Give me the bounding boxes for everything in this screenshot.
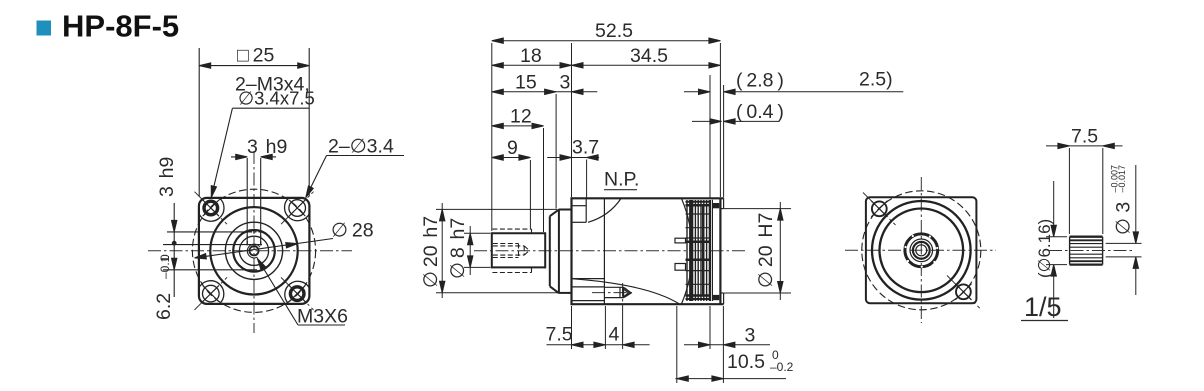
svg-text:( 2.8 ): ( 2.8 ) (736, 70, 784, 92)
svg-text:34.5: 34.5 (630, 45, 668, 67)
svg-text:3.7: 3.7 (572, 137, 599, 159)
svg-text:2.5): 2.5) (859, 69, 893, 91)
svg-text:–0.2: –0.2 (770, 360, 794, 374)
svg-text:2–∅3.4: 2–∅3.4 (328, 136, 394, 158)
svg-text:9: 9 (507, 137, 518, 159)
svg-text:52.5: 52.5 (595, 20, 633, 42)
svg-text:3: 3 (560, 71, 571, 93)
svg-text:10.5: 10.5 (727, 351, 765, 373)
svg-text:3 h9: 3 h9 (247, 136, 287, 158)
svg-text:∅3.4x7.5: ∅3.4x7.5 (238, 88, 315, 109)
svg-text:HP-8F-5: HP-8F-5 (62, 9, 179, 44)
svg-text:18: 18 (520, 45, 542, 67)
svg-text:∅ 3: ∅ 3 (1113, 202, 1135, 235)
svg-text:7.5: 7.5 (546, 324, 573, 346)
svg-text:M3X6: M3X6 (297, 306, 348, 328)
svg-text:6.2: 6.2 (153, 293, 175, 320)
svg-text:4: 4 (609, 324, 620, 346)
svg-text:15: 15 (515, 71, 537, 93)
svg-text:–0.1: –0.1 (158, 255, 172, 279)
svg-text:3: 3 (745, 325, 756, 347)
svg-text:( 0.4 ): ( 0.4 ) (736, 101, 784, 123)
svg-text:□ 25: □ 25 (237, 45, 275, 67)
svg-text:∅ 28: ∅ 28 (331, 220, 374, 242)
svg-text:1/5: 1/5 (1024, 292, 1062, 322)
svg-text:(∅6.16): (∅6.16) (1035, 219, 1054, 278)
svg-text:12: 12 (510, 106, 532, 128)
svg-text:∅ 20 H7: ∅ 20 H7 (755, 213, 777, 288)
svg-text:3 h9: 3 h9 (156, 157, 178, 197)
svg-text:N.P.: N.P. (604, 169, 639, 191)
svg-text:∅ 20 h7: ∅ 20 h7 (420, 216, 442, 288)
svg-text:7.5: 7.5 (1071, 126, 1098, 148)
svg-text:–0.017: –0.017 (1117, 165, 1127, 193)
svg-text:∅ 8 h7: ∅ 8 h7 (447, 218, 469, 279)
